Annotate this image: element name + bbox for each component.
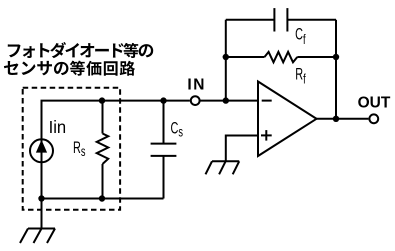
svg-text:Rs: Rs	[73, 138, 86, 160]
wire: bottom bus of sensor circuit	[42, 198, 164, 200]
junction dot: output node	[333, 116, 339, 122]
wire: Rf right lead	[297, 56, 336, 58]
junction dot: Rs top	[99, 97, 105, 103]
junction dot: Rs bottom	[99, 195, 105, 201]
wire: Rs top stem	[102, 101, 104, 134]
wire: feedback right vertical	[335, 20, 337, 119]
op-amp plus sign	[261, 130, 272, 141]
svg-text:OUT: OUT	[358, 95, 391, 112]
svg-text:Iin: Iin	[49, 118, 67, 137]
dashed box: sensor equivalent circuit boundary	[23, 88, 120, 210]
junction dot: ground bus left	[38, 195, 44, 201]
title text line 1: フォトダイオード等の	[8, 42, 153, 58]
capacitor Cs top plate	[151, 143, 177, 145]
capacitor Cs bottom plate	[151, 155, 177, 157]
wire: Cs top stem	[163, 101, 165, 144]
capacitor Cf right plate	[286, 8, 288, 31]
junction dot: Rf right	[333, 54, 339, 60]
wire: ground stem of sensor circuit	[41, 199, 43, 229]
title text line 2: センサの等価回路	[4, 61, 135, 76]
ground symbol (op-amp non-inverting input)	[206, 161, 240, 174]
wire: Rs bottom stem	[102, 164, 104, 199]
resistor Rf zigzag	[265, 52, 298, 62]
current source Iin (circle with up arrow)	[30, 139, 53, 162]
wire: Rf left lead	[226, 56, 265, 58]
junction dot: Rf left	[223, 54, 229, 60]
op-amp U1 triangle	[258, 82, 317, 157]
svg-text:Rf: Rf	[295, 64, 306, 87]
node: OUT terminal circle	[369, 114, 378, 123]
resistor Rs zigzag	[97, 134, 109, 165]
wire: Cs bottom stem	[163, 156, 165, 199]
wire: IN terminal to op-amp inverting input	[201, 100, 259, 102]
junction dot: Cs top	[160, 97, 166, 103]
wire: op-amp output to OUT terminal	[317, 118, 369, 120]
svg-text:IN: IN	[187, 77, 206, 94]
ground symbol (sensor circuit)	[20, 229, 55, 244]
node: IN terminal circle	[191, 96, 200, 105]
wire: Cf left lead	[226, 19, 275, 21]
svg-text:Cf: Cf	[295, 24, 306, 48]
wire: feedback left vertical	[225, 20, 227, 101]
wire: Cf right lead	[287, 19, 336, 21]
svg-text:Cs: Cs	[171, 118, 184, 140]
wire: non-inverting input to ground	[226, 136, 258, 162]
op-amp minus sign	[262, 100, 272, 102]
junction dot: inverting input node	[223, 97, 229, 103]
wire: left branch vertical + top wire to IN terminal	[42, 101, 190, 199]
capacitor Cf left plate	[273, 8, 275, 31]
